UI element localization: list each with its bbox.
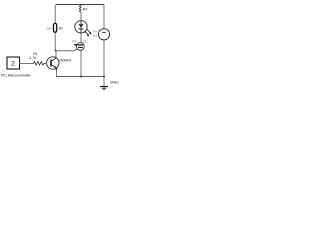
wire: collector up to node bbox=[55, 51, 57, 57]
lamp/source B1 bbox=[94, 29, 110, 40]
svg-text:220: 220 bbox=[46, 26, 51, 30]
wire: lamp down to ground rail bbox=[103, 40, 105, 77]
resistor R3 (zigzag, vertical) bbox=[79, 5, 81, 13]
svg-text:MA: MA bbox=[72, 39, 76, 43]
node: collector junction bbox=[55, 50, 57, 52]
wire: right branch from rail down to lamp bbox=[103, 5, 105, 29]
node: junction at rail right end bbox=[103, 76, 105, 78]
transistor Q1 bbox=[47, 57, 59, 71]
svg-text:Q2: Q2 bbox=[83, 40, 87, 44]
PIC pin box bbox=[7, 57, 20, 69]
svg-text:R3: R3 bbox=[83, 8, 88, 12]
wire: R1 to base bbox=[45, 63, 47, 65]
wire: Q2 down to ground rail bbox=[80, 51, 82, 77]
node: junction on ground rail bbox=[80, 76, 82, 78]
svg-text:R2: R2 bbox=[59, 27, 63, 31]
wire: top supply rail bbox=[56, 4, 104, 6]
LED light arrows bbox=[85, 31, 89, 35]
wire: ground stem bbox=[103, 77, 105, 87]
wire: R2 bottom down to collector node bbox=[54, 32, 56, 51]
svg-text:GND1: GND1 bbox=[110, 81, 119, 85]
wire: box to R1 bbox=[20, 63, 33, 65]
ground bbox=[100, 87, 108, 90]
wire: LED to Q2 bbox=[80, 33, 82, 42]
LED D1 bbox=[75, 21, 92, 37]
svg-text:2N3904: 2N3904 bbox=[59, 59, 71, 63]
svg-text:B1: B1 bbox=[94, 34, 98, 38]
wire: left branch from rail down to R2 bbox=[54, 5, 56, 24]
wire: horizontal from collector node to Q2 bbox=[56, 50, 74, 52]
wire: R3 to LED bbox=[80, 13, 82, 21]
wire: emitter down to ground rail bbox=[56, 70, 58, 78]
svg-text:PIC Microcontroller: PIC Microcontroller bbox=[1, 74, 32, 78]
wire: bottom ground rail bbox=[57, 76, 104, 78]
svg-text:2: 2 bbox=[11, 61, 15, 68]
svg-text:4.7K: 4.7K bbox=[29, 56, 37, 60]
resistor R1 (zigzag) bbox=[33, 62, 45, 66]
transistor Q2 (photo/driver, small) bbox=[72, 39, 86, 51]
resistor R2 (box style) bbox=[54, 23, 57, 32]
